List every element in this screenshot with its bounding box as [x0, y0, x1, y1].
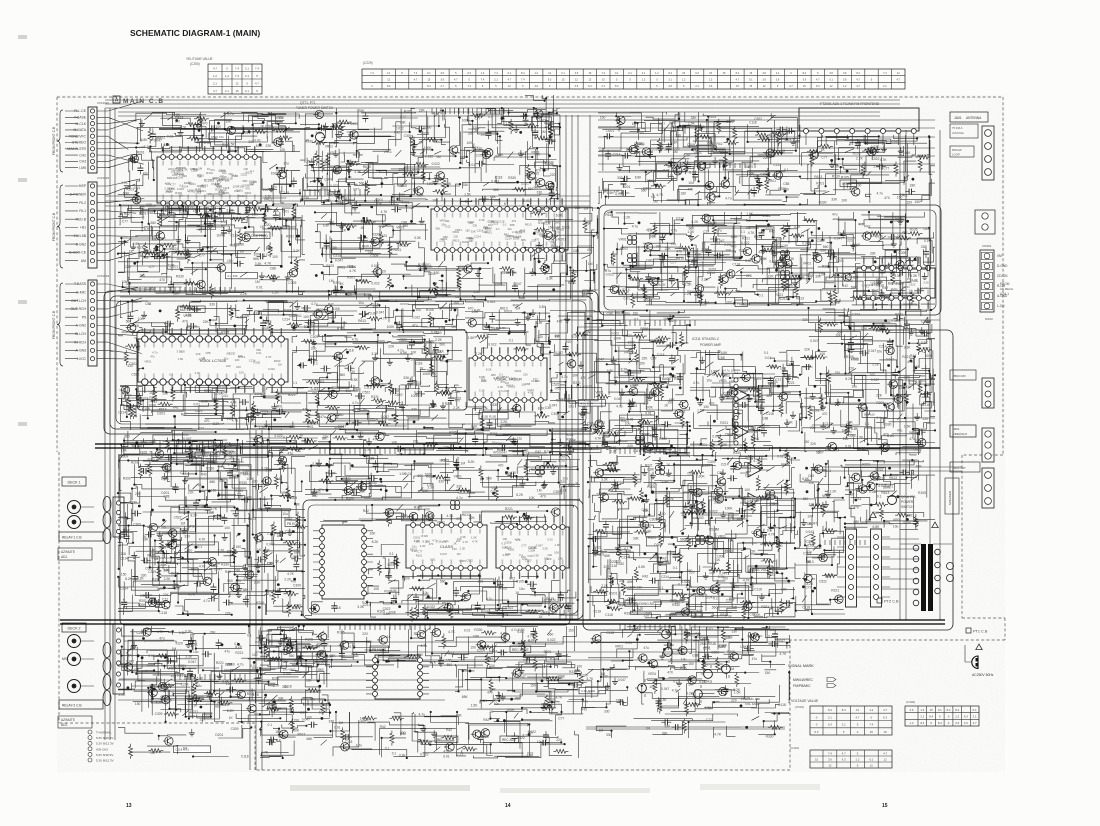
svg-text:10u: 10u — [193, 650, 199, 654]
svg-text:6.8K: 6.8K — [141, 138, 149, 142]
svg-text:R613 C88: R613 C88 — [774, 243, 788, 247]
svg-text:R105: R105 — [516, 580, 524, 584]
svg-text:0.022: 0.022 — [375, 484, 383, 488]
svg-text:15: 15 — [815, 757, 819, 761]
svg-text:C214: C214 — [879, 344, 887, 348]
svg-text:33K: 33K — [273, 209, 280, 213]
svg-text:R330: R330 — [569, 670, 577, 674]
svg-text:8.2K: 8.2K — [156, 701, 164, 705]
svg-text:330: 330 — [629, 351, 635, 355]
svg-text:3.3K: 3.3K — [671, 140, 679, 144]
svg-text:1.5K: 1.5K — [178, 357, 184, 361]
svg-text:C309: C309 — [509, 377, 516, 381]
svg-text:560: 560 — [447, 663, 453, 667]
svg-text:R330: R330 — [883, 422, 891, 426]
svg-text:0.1: 0.1 — [385, 747, 390, 751]
svg-text:0.01: 0.01 — [646, 611, 653, 615]
svg-text:C309: C309 — [313, 644, 321, 648]
svg-text:15: 15 — [235, 89, 239, 93]
svg-text:C309: C309 — [404, 134, 412, 138]
svg-text:4.7u: 4.7u — [203, 599, 210, 603]
svg-text:R201: R201 — [139, 599, 147, 603]
svg-text:1M: 1M — [175, 120, 180, 124]
svg-text:10u: 10u — [852, 384, 858, 388]
svg-text:R201: R201 — [385, 575, 393, 579]
svg-text:330: 330 — [905, 385, 911, 389]
svg-text:C118: C118 — [118, 552, 126, 556]
svg-text:8.4: 8.4 — [955, 708, 959, 712]
svg-text:0.1: 0.1 — [938, 708, 942, 712]
svg-text:1.5K: 1.5K — [228, 143, 236, 147]
svg-text:C309: C309 — [214, 217, 222, 221]
svg-text:R221: R221 — [235, 651, 243, 655]
svg-text:100: 100 — [402, 244, 408, 248]
svg-text:C77: C77 — [651, 357, 657, 361]
svg-text:2.1: 2.1 — [245, 66, 249, 70]
svg-text:10K: 10K — [121, 449, 128, 453]
svg-text:0.01: 0.01 — [547, 537, 553, 541]
svg-text:1.5K: 1.5K — [746, 212, 754, 216]
svg-text:0.047: 0.047 — [777, 639, 785, 643]
svg-text:R201: R201 — [206, 171, 213, 175]
svg-text:FT2001 AZA-1 TC/AM FM FRONTEND: FT2001 AZA-1 TC/AM FM FRONTEND — [820, 102, 880, 106]
svg-text:150: 150 — [803, 497, 809, 501]
svg-text:22K: 22K — [483, 226, 488, 230]
svg-text:2.2K: 2.2K — [218, 549, 226, 553]
svg-text:100: 100 — [424, 507, 430, 511]
svg-text:R330: R330 — [659, 437, 667, 441]
svg-text:3.3K: 3.3K — [160, 563, 168, 567]
svg-text:R330: R330 — [301, 196, 309, 200]
svg-text:22K: 22K — [750, 550, 757, 554]
svg-text:0.047: 0.047 — [381, 415, 389, 419]
svg-text:22K: 22K — [244, 576, 251, 580]
svg-text:R221: R221 — [166, 189, 173, 193]
svg-text:3.3K: 3.3K — [794, 225, 802, 229]
svg-text:C88: C88 — [783, 182, 789, 186]
svg-text:150: 150 — [639, 362, 645, 366]
svg-text:R221: R221 — [566, 433, 574, 437]
svg-text:0.01: 0.01 — [596, 528, 603, 532]
svg-text:47u: 47u — [303, 407, 309, 411]
svg-text:R221: R221 — [814, 546, 822, 550]
svg-text:0.01: 0.01 — [443, 539, 449, 543]
svg-text:560: 560 — [227, 579, 233, 583]
svg-text:VR01: VR01 — [275, 405, 283, 409]
svg-text:C522: C522 — [722, 374, 730, 378]
svg-text:R201: R201 — [490, 432, 498, 436]
svg-text:47u: 47u — [832, 213, 838, 217]
svg-text:R613: R613 — [531, 468, 539, 472]
svg-text:R221: R221 — [246, 170, 253, 174]
svg-text:R105: R105 — [219, 385, 227, 389]
svg-text:0.1: 0.1 — [268, 723, 273, 727]
svg-text:330: 330 — [127, 364, 133, 368]
svg-text:4.7K: 4.7K — [714, 733, 722, 737]
svg-text:100K: 100K — [149, 403, 158, 407]
svg-text:0.022: 0.022 — [782, 264, 790, 268]
svg-text:100: 100 — [870, 373, 876, 377]
svg-text:68K: 68K — [417, 474, 424, 478]
svg-text:0.01: 0.01 — [523, 199, 530, 203]
svg-text:6.8K: 6.8K — [123, 192, 131, 196]
svg-text:2.2K: 2.2K — [121, 390, 129, 394]
svg-text:0.022: 0.022 — [531, 171, 539, 175]
svg-text:150: 150 — [465, 228, 470, 232]
svg-text:10K: 10K — [391, 441, 398, 445]
svg-text:8.2K: 8.2K — [689, 171, 697, 175]
svg-text:3.6: 3.6 — [575, 85, 579, 88]
svg-text:4.7u: 4.7u — [432, 539, 438, 543]
svg-text:4.7u: 4.7u — [183, 506, 190, 510]
svg-text:10u VR01: 10u VR01 — [282, 668, 296, 672]
svg-text:22K: 22K — [810, 442, 817, 446]
svg-text:22K: 22K — [804, 347, 811, 351]
svg-text:150: 150 — [528, 187, 534, 191]
svg-text:560: 560 — [130, 646, 136, 650]
svg-text:C522: C522 — [892, 140, 900, 144]
svg-text:D201: D201 — [692, 493, 700, 497]
svg-text:R105: R105 — [156, 252, 164, 256]
svg-text:R613: R613 — [298, 732, 306, 736]
svg-text:R221: R221 — [170, 247, 178, 251]
svg-text:68K: 68K — [604, 554, 611, 558]
svg-text:C214: C214 — [613, 153, 621, 157]
svg-text:8.2K: 8.2K — [645, 530, 653, 534]
svg-text:3.3K: 3.3K — [185, 630, 193, 634]
svg-text:1.5K: 1.5K — [123, 397, 131, 401]
svg-text:1K: 1K — [207, 167, 211, 171]
svg-text:C77: C77 — [706, 718, 712, 722]
svg-text:R330: R330 — [384, 589, 392, 593]
svg-text:3.3K: 3.3K — [533, 554, 539, 558]
svg-text:0.047: 0.047 — [909, 379, 917, 383]
svg-text:D201: D201 — [646, 258, 654, 262]
svg-text:100K: 100K — [441, 294, 450, 298]
svg-text:10u: 10u — [787, 283, 793, 287]
svg-text:220: 220 — [556, 738, 562, 742]
svg-text:1M: 1M — [201, 356, 206, 360]
svg-text:CN#04: CN#04 — [982, 244, 992, 248]
svg-text:D201: D201 — [304, 325, 312, 329]
svg-text:R201: R201 — [568, 281, 576, 285]
svg-text:2.2K: 2.2K — [873, 164, 881, 168]
svg-text:470: 470 — [204, 419, 210, 423]
svg-text:C214: C214 — [707, 271, 715, 275]
svg-text:68K: 68K — [854, 520, 861, 524]
svg-text:0.1: 0.1 — [877, 495, 882, 499]
svg-text:C309: C309 — [690, 250, 698, 254]
svg-text:C118: C118 — [754, 587, 762, 591]
svg-text:10K: 10K — [373, 587, 380, 591]
svg-text:Q01A 27A: Q01A 27A — [901, 495, 916, 499]
svg-text:10K: 10K — [762, 542, 769, 546]
svg-text:R330: R330 — [819, 201, 827, 205]
svg-text:0.022: 0.022 — [547, 638, 555, 642]
svg-text:4.7: 4.7 — [883, 708, 887, 712]
svg-text:R221 6.8K: R221 6.8K — [492, 326, 506, 330]
svg-text:47u: 47u — [225, 650, 231, 654]
svg-text:2.1: 2.1 — [225, 89, 229, 93]
svg-text:330: 330 — [252, 479, 258, 483]
svg-text:3.3K: 3.3K — [397, 184, 405, 188]
svg-text:3.6: 3.6 — [803, 79, 807, 82]
svg-text:8.2K: 8.2K — [560, 489, 568, 493]
svg-text:470: 470 — [498, 464, 504, 468]
svg-text:R105 1.5K: R105 1.5K — [362, 244, 376, 248]
svg-text:220: 220 — [637, 586, 643, 590]
svg-text:560: 560 — [743, 603, 749, 607]
svg-text:470: 470 — [676, 250, 682, 254]
svg-text:470: 470 — [528, 390, 533, 394]
svg-text:R105: R105 — [170, 660, 178, 664]
svg-text:0.1: 0.1 — [427, 72, 431, 75]
svg-text:33K: 33K — [856, 143, 863, 147]
svg-text:C88: C88 — [353, 387, 359, 391]
svg-text:68K: 68K — [224, 669, 231, 673]
svg-text:4.7u: 4.7u — [491, 612, 498, 616]
svg-text:VM: VM — [997, 254, 1002, 258]
svg-text:0.047: 0.047 — [718, 645, 726, 649]
svg-text:3.3K: 3.3K — [701, 278, 709, 282]
svg-text:33K: 33K — [359, 490, 366, 494]
svg-text:3.6: 3.6 — [762, 72, 766, 75]
svg-text:TONE/VFC: TONE/VFC — [69, 134, 87, 138]
svg-text:0.1: 0.1 — [602, 85, 606, 88]
svg-text:0.047: 0.047 — [536, 544, 543, 548]
svg-text:4.7K: 4.7K — [874, 296, 882, 300]
svg-text:0.01: 0.01 — [334, 725, 341, 729]
svg-text:C309: C309 — [310, 335, 318, 339]
svg-text:1M: 1M — [648, 228, 653, 232]
svg-text:4.7u: 4.7u — [237, 663, 244, 667]
svg-text:3.3K: 3.3K — [185, 655, 193, 659]
svg-text:D201: D201 — [562, 226, 570, 230]
svg-text:330: 330 — [209, 303, 215, 307]
svg-text:4.7K: 4.7K — [210, 507, 218, 511]
svg-text:(C402): (C402) — [906, 700, 915, 704]
svg-text:220: 220 — [453, 235, 458, 239]
svg-text:R330: R330 — [651, 664, 659, 668]
svg-text:0.022: 0.022 — [330, 184, 338, 188]
svg-text:2.1: 2.1 — [245, 89, 249, 93]
svg-text:33K: 33K — [282, 685, 289, 689]
svg-text:100K: 100K — [424, 146, 433, 150]
svg-text:13: 13 — [126, 803, 132, 809]
svg-text:VR01: VR01 — [243, 473, 251, 477]
svg-text:3.3K: 3.3K — [460, 535, 466, 539]
svg-text:330: 330 — [709, 443, 715, 447]
svg-text:C88: C88 — [865, 519, 871, 523]
svg-text:8.2K: 8.2K — [125, 577, 133, 581]
svg-text:100: 100 — [252, 653, 258, 657]
svg-text:5.6V 8/18.9V: 5.6V 8/18.9V — [96, 753, 113, 757]
svg-text:R613: R613 — [535, 208, 543, 212]
svg-text:150: 150 — [171, 486, 177, 490]
svg-text:C88: C88 — [163, 494, 169, 498]
svg-text:10u: 10u — [519, 587, 525, 591]
svg-text:C118: C118 — [346, 349, 354, 353]
svg-text:C88: C88 — [581, 427, 587, 431]
svg-text:1.5K: 1.5K — [364, 448, 372, 452]
svg-text:100K: 100K — [545, 205, 554, 209]
svg-text:0.047: 0.047 — [712, 434, 720, 438]
svg-text:C118: C118 — [345, 740, 353, 744]
svg-text:2.2K: 2.2K — [725, 615, 733, 619]
svg-text:150: 150 — [400, 193, 406, 197]
svg-text:47u: 47u — [550, 598, 556, 602]
svg-text:68K: 68K — [737, 434, 744, 438]
svg-text:22K: 22K — [225, 611, 232, 615]
svg-text:2.2K: 2.2K — [267, 532, 275, 536]
svg-text:C309: C309 — [760, 172, 768, 176]
svg-text:+B1: +B1 — [80, 226, 86, 230]
svg-text:150: 150 — [211, 489, 217, 493]
svg-text:VR01: VR01 — [514, 369, 521, 373]
svg-text:100K: 100K — [568, 439, 577, 443]
svg-text:47u: 47u — [863, 447, 869, 451]
svg-text:0.047: 0.047 — [596, 357, 604, 361]
svg-text:REC OUT-B: REC OUT-B — [437, 738, 454, 742]
svg-text:MSP: MSP — [79, 184, 87, 188]
svg-text:6.3: 6.3 — [964, 721, 968, 725]
svg-text:10u: 10u — [537, 740, 543, 744]
svg-text:4.7K: 4.7K — [349, 269, 357, 273]
svg-text:10K: 10K — [558, 556, 563, 560]
svg-text:0.01: 0.01 — [626, 641, 633, 645]
svg-text:68K: 68K — [294, 551, 301, 555]
svg-text:R105: R105 — [205, 210, 213, 214]
svg-text:2.2K: 2.2K — [471, 425, 479, 429]
svg-text:R201: R201 — [286, 234, 294, 238]
svg-text:R613: R613 — [525, 223, 532, 227]
svg-text:220: 220 — [843, 437, 849, 441]
svg-text:47u: 47u — [671, 242, 677, 246]
svg-text:220: 220 — [350, 370, 356, 374]
svg-text:68K: 68K — [669, 398, 676, 402]
svg-text:1M: 1M — [250, 182, 255, 186]
svg-text:10u: 10u — [507, 227, 512, 231]
svg-text:4.7u: 4.7u — [311, 302, 318, 306]
svg-text:100: 100 — [373, 305, 379, 309]
svg-text:47u: 47u — [159, 636, 165, 640]
svg-text:4.7K: 4.7K — [659, 283, 667, 287]
svg-text:15: 15 — [884, 730, 888, 734]
svg-text:R330: R330 — [766, 734, 774, 738]
svg-text:2.2K: 2.2K — [670, 598, 678, 602]
svg-text:R613: R613 — [358, 319, 366, 323]
svg-text:6.8K: 6.8K — [256, 144, 264, 148]
svg-text:47u: 47u — [271, 185, 277, 189]
svg-text:150: 150 — [835, 371, 841, 375]
svg-text:470: 470 — [822, 412, 828, 416]
svg-text:470: 470 — [413, 188, 419, 192]
svg-text:10u: 10u — [423, 591, 429, 595]
svg-text:22K: 22K — [194, 167, 199, 171]
svg-text:D201: D201 — [144, 249, 152, 253]
svg-text:68K: 68K — [538, 218, 543, 222]
svg-text:ADJ.: ADJ. — [61, 723, 68, 727]
svg-text:560: 560 — [417, 653, 423, 657]
svg-text:1M: 1M — [601, 672, 606, 676]
svg-text:0.1: 0.1 — [784, 168, 789, 172]
svg-text:C309: C309 — [177, 176, 184, 180]
svg-text:4.7K: 4.7K — [768, 533, 776, 537]
svg-text:8.2K: 8.2K — [621, 368, 629, 372]
svg-text:4.7u: 4.7u — [456, 496, 463, 500]
svg-text:10K: 10K — [529, 496, 536, 500]
svg-text:C214: C214 — [505, 237, 512, 241]
svg-text:4.7u: 4.7u — [511, 628, 518, 632]
svg-text:33K: 33K — [359, 109, 366, 113]
svg-text:R613: R613 — [221, 703, 229, 707]
svg-text:Q2TB: Q2TB — [700, 637, 708, 641]
svg-text:4.7u: 4.7u — [232, 419, 239, 423]
svg-text:47u: 47u — [675, 128, 681, 132]
svg-text:VR01: VR01 — [485, 230, 492, 234]
svg-text:VR01: VR01 — [695, 508, 703, 512]
svg-text:2.1: 2.1 — [828, 716, 832, 720]
svg-text:4.7u: 4.7u — [558, 459, 565, 463]
svg-text:330: 330 — [537, 190, 543, 194]
svg-text:C88: C88 — [492, 486, 498, 490]
svg-text:VR01: VR01 — [718, 534, 726, 538]
svg-text:R42: R42 — [276, 477, 282, 481]
svg-text:8.4: 8.4 — [842, 708, 846, 712]
svg-text:10u: 10u — [681, 657, 687, 661]
svg-text:100K: 100K — [507, 708, 516, 712]
svg-text:CD-ON: CD-ON — [997, 274, 1008, 278]
svg-text:8.2K: 8.2K — [733, 688, 741, 692]
svg-text:22K: 22K — [547, 557, 552, 561]
svg-text:0.01: 0.01 — [445, 224, 451, 228]
svg-text:4.7u: 4.7u — [352, 401, 359, 405]
svg-text:220: 220 — [847, 238, 853, 242]
svg-text:1.5K: 1.5K — [713, 122, 721, 126]
svg-text:150: 150 — [121, 572, 127, 576]
svg-text:6.8K: 6.8K — [556, 213, 564, 217]
svg-text:1.5K: 1.5K — [471, 535, 477, 539]
svg-text:47u: 47u — [643, 646, 649, 650]
svg-text:A-GN3: A-GN3 — [76, 349, 86, 353]
svg-text:C88: C88 — [289, 425, 295, 429]
svg-text:R42: R42 — [124, 212, 130, 216]
svg-text:3.6: 3.6 — [910, 708, 914, 712]
svg-text:68K: 68K — [215, 704, 222, 708]
svg-text:6.8K: 6.8K — [899, 396, 907, 400]
svg-text:D201: D201 — [753, 377, 761, 381]
svg-text:R105: R105 — [516, 477, 524, 481]
svg-text:100K: 100K — [925, 354, 934, 358]
svg-text:100: 100 — [577, 664, 583, 668]
svg-text:220: 220 — [731, 698, 737, 702]
svg-text:10K: 10K — [351, 207, 358, 211]
svg-text:100: 100 — [267, 562, 273, 566]
svg-text:0.047: 0.047 — [140, 594, 148, 598]
svg-text:R330: R330 — [508, 176, 516, 180]
svg-text:C214: C214 — [181, 683, 189, 687]
svg-text:1.2: 1.2 — [843, 85, 847, 88]
svg-text:R201: R201 — [137, 151, 145, 155]
svg-text:3.3K: 3.3K — [714, 501, 722, 505]
svg-text:10u: 10u — [320, 186, 326, 190]
svg-text:22K: 22K — [200, 718, 207, 722]
svg-text:1.5K: 1.5K — [607, 191, 615, 195]
svg-text:4.7K: 4.7K — [686, 585, 694, 589]
svg-text:560: 560 — [440, 580, 446, 584]
svg-text:33K: 33K — [463, 183, 470, 187]
svg-text:33K: 33K — [348, 641, 355, 645]
